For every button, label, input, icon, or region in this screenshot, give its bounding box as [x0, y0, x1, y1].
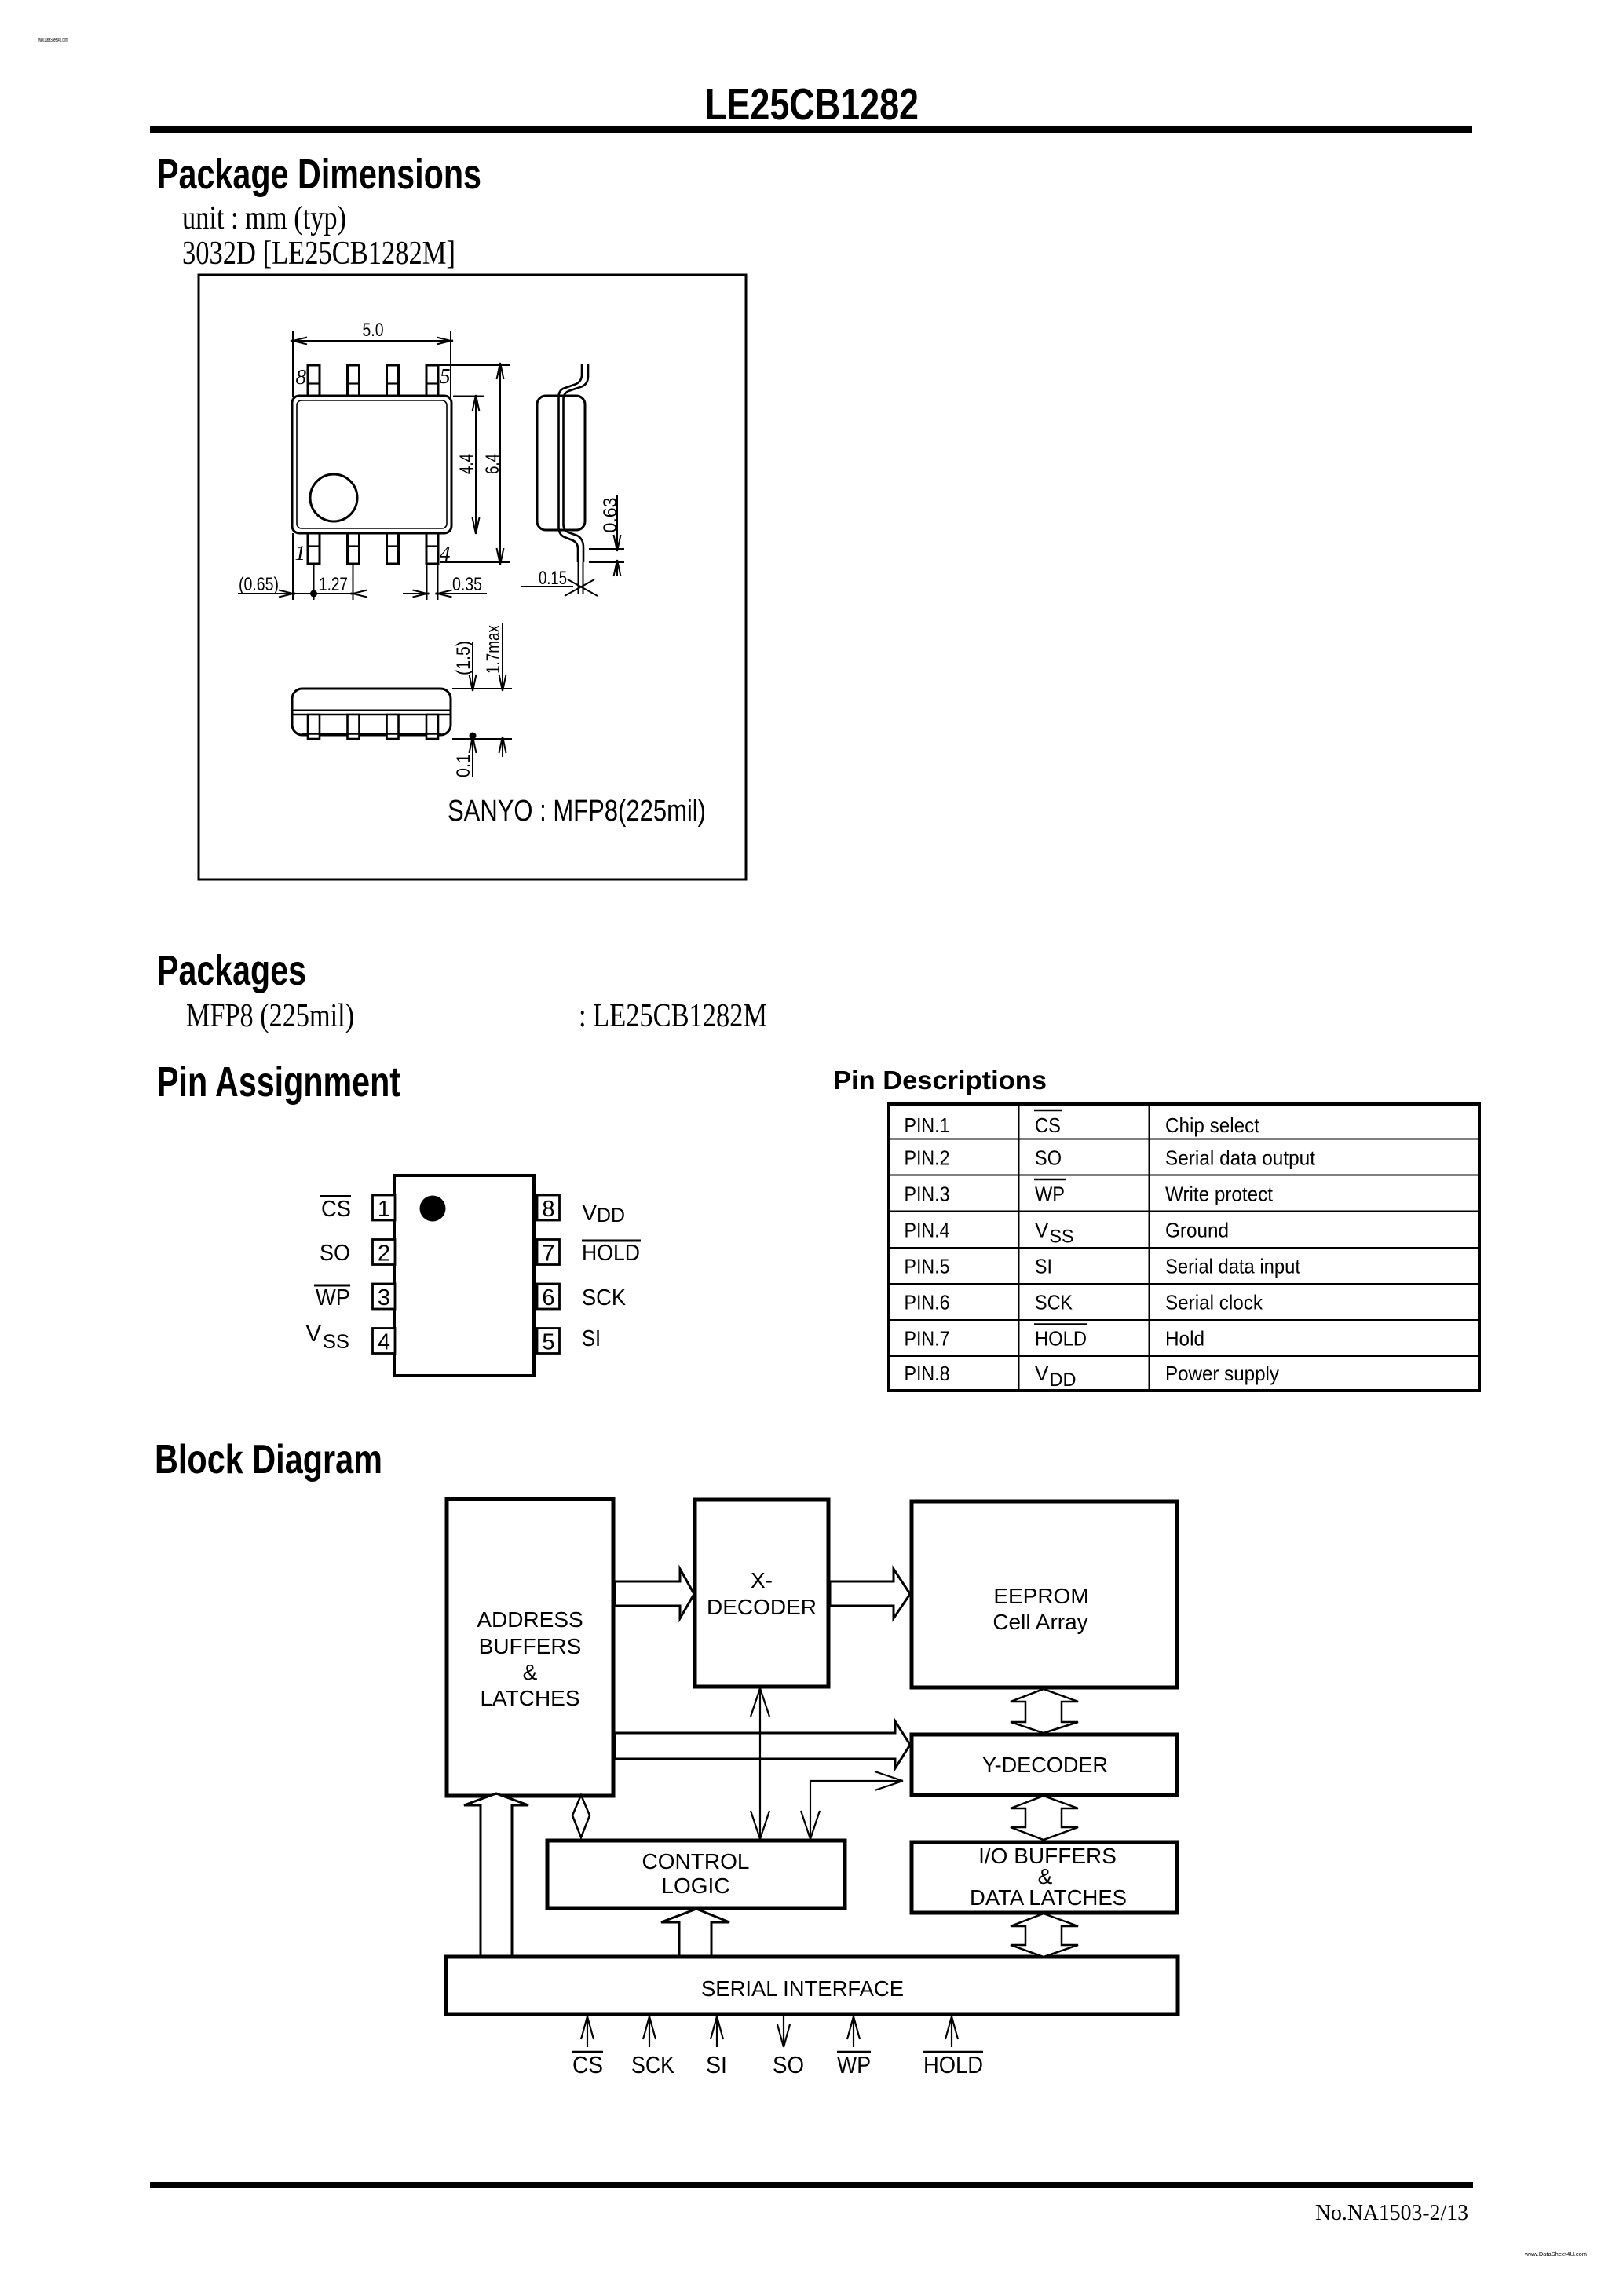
svg-text:0.63: 0.63	[600, 498, 621, 533]
svg-text:SS: SS	[323, 1331, 349, 1353]
svg-text:CS: CS	[572, 2051, 603, 2078]
svg-text:PIN.3: PIN.3	[905, 1183, 950, 1206]
svg-text:SANYO : MFP8(225mil): SANYO : MFP8(225mil)	[448, 795, 706, 828]
svg-text:Serial data input: Serial data input	[1165, 1255, 1301, 1278]
svg-text:1.27: 1.27	[319, 574, 348, 595]
lead left edge	[559, 364, 583, 562]
svg-text:Power supply: Power supply	[1165, 1362, 1279, 1385]
dot at pin1 center	[310, 590, 317, 598]
block: i/o buffers & data latches	[912, 1842, 1177, 1913]
svg-text:Write protect: Write protect	[1165, 1183, 1274, 1206]
svg-text:HOLD: HOLD	[1035, 1327, 1087, 1351]
svg-text:Cell Array: Cell Array	[992, 1610, 1087, 1634]
footer rule	[150, 2182, 1473, 2188]
dim 0.15 line	[521, 586, 573, 587]
svg-text:SO: SO	[773, 2051, 804, 2078]
svg-text:EEPROM: EEPROM	[993, 1584, 1088, 1608]
svg-text:V: V	[306, 1322, 322, 1347]
svg-text:Hold: Hold	[1165, 1327, 1204, 1351]
top pins 8..5	[308, 365, 438, 396]
svg-text:Serial data output: Serial data output	[1165, 1146, 1316, 1170]
dim 5.0 line with arrowheads	[293, 340, 451, 342]
svg-text:V: V	[582, 1201, 598, 1226]
parting lines	[293, 710, 450, 711]
svg-text:1: 1	[295, 541, 306, 565]
svg-text:PIN.2: PIN.2	[905, 1146, 950, 1170]
svg-text:PIN.8: PIN.8	[905, 1362, 950, 1385]
dim line 0.65 / 1.27	[238, 593, 353, 594]
svg-text:Pin Assignment: Pin Assignment	[157, 1058, 400, 1106]
svg-text:Y-DECODER: Y-DECODER	[982, 1753, 1108, 1777]
svg-text:&: &	[523, 1660, 538, 1684]
svg-text:SO: SO	[320, 1241, 350, 1266]
dim 0.35 arrows	[403, 593, 427, 594]
svg-text:0.15: 0.15	[539, 568, 567, 589]
svg-text:unit : mm (typ): unit : mm (typ)	[182, 200, 346, 236]
block: x-decoder	[695, 1500, 828, 1687]
svg-text:V: V	[1035, 1219, 1049, 1242]
lead right edge	[564, 364, 589, 562]
svg-text:LE25CB1282: LE25CB1282	[705, 79, 919, 130]
svg-text:4.4: 4.4	[456, 454, 477, 474]
svg-text:Packages: Packages	[157, 947, 306, 994]
svg-text:8: 8	[542, 1197, 554, 1222]
svg-text:SCK: SCK	[1035, 1291, 1073, 1314]
input arrow CS	[587, 2016, 588, 2047]
pin1 index circle	[310, 474, 357, 521]
svg-text:HOLD: HOLD	[923, 2051, 983, 2078]
thin arrow: control logic to y-decoder	[810, 1781, 903, 1839]
svg-text:0.1: 0.1	[453, 754, 474, 777]
package body top view	[292, 396, 451, 533]
hollow arrow: address buffers to x-decoder	[615, 1569, 694, 1618]
label WP with overline	[314, 1285, 350, 1287]
output arrow SO	[783, 2016, 784, 2047]
svg-text:8: 8	[296, 365, 307, 389]
pin numbers	[378, 1197, 555, 1355]
svg-text:HOLD: HOLD	[582, 1241, 640, 1266]
pin boxes right	[537, 1195, 560, 1220]
pin boxes left	[373, 1195, 560, 1354]
svg-text:CONTROL: CONTROL	[642, 1849, 750, 1874]
block: control logic	[547, 1841, 845, 1908]
svg-text:ADDRESS: ADDRESS	[477, 1607, 583, 1632]
svg-text:WP: WP	[316, 1285, 350, 1311]
svg-text:WP: WP	[1035, 1183, 1065, 1206]
svg-text:SCK: SCK	[631, 2051, 674, 2078]
svg-text:PIN.7: PIN.7	[905, 1327, 950, 1351]
dim 0.15 crossing arrows	[565, 579, 594, 596]
svg-text:Package Dimensions: Package Dimensions	[157, 151, 481, 198]
svg-text:(0.65): (0.65)	[239, 574, 279, 595]
dim 6.4	[437, 364, 510, 366]
body inner outline	[297, 400, 447, 528]
svg-text:SO: SO	[1035, 1146, 1062, 1170]
svg-text:6: 6	[542, 1285, 554, 1311]
block: y-decoder	[912, 1735, 1177, 1795]
dim 0.1	[472, 739, 473, 777]
svg-text:DECODER: DECODER	[707, 1595, 817, 1619]
svg-text:SI: SI	[582, 1326, 601, 1351]
svg-text:3032D [LE25CB1282M]: 3032D [LE25CB1282M]	[182, 236, 455, 272]
dim 1.7max	[502, 623, 503, 689]
svg-text:4: 4	[378, 1330, 390, 1355]
hollow arrow: serial interface to address buffers	[464, 1793, 528, 1956]
hollow arrow: address buffers to y-decoder	[615, 1721, 910, 1768]
svg-text:X-: X-	[751, 1568, 773, 1592]
svg-text:WP: WP	[837, 2051, 871, 2078]
side view body	[537, 396, 585, 530]
block: eeprom cell array	[912, 1501, 1177, 1687]
svg-text:BUFFERS: BUFFERS	[479, 1634, 582, 1658]
ext lines right of front view	[452, 688, 512, 689]
bottom dim extension lines	[292, 533, 294, 600]
dim (1.5)	[472, 642, 473, 689]
label CS with overline	[320, 1195, 351, 1197]
svg-text:Pin Descriptions: Pin Descriptions	[833, 1066, 1047, 1095]
input arrow HOLD	[951, 2016, 952, 2047]
title rule	[150, 126, 1472, 133]
svg-text:DD: DD	[597, 1205, 625, 1227]
front view pins	[308, 715, 438, 739]
pin1 marker dot	[420, 1196, 446, 1222]
signal overlines	[572, 2051, 983, 2053]
svg-text:Serial clock: Serial clock	[1165, 1291, 1263, 1314]
svg-text:SERIAL INTERFACE: SERIAL INTERFACE	[701, 1976, 904, 2001]
input arrow SI	[716, 2016, 718, 2047]
body bottom line over pins	[302, 733, 441, 735]
svg-text:PIN.1: PIN.1	[905, 1113, 950, 1137]
svg-text:CS: CS	[321, 1197, 351, 1222]
svg-text:: LE25CB1282M: : LE25CB1282M	[579, 998, 767, 1034]
svg-text:DATA LATCHES: DATA LATCHES	[970, 1885, 1127, 1910]
svg-text:Block Diagram: Block Diagram	[155, 1437, 382, 1483]
svg-text:LATCHES: LATCHES	[480, 1686, 579, 1710]
svg-text:7: 7	[542, 1241, 554, 1267]
svg-text:(1.5): (1.5)	[453, 641, 474, 675]
double arrow: y-decoder / i/o buffers	[1011, 1796, 1078, 1840]
hollow arrow: serial interface to control logic	[661, 1909, 729, 1956]
svg-text:PIN.6: PIN.6	[905, 1291, 950, 1314]
bottom pins 1..4	[308, 533, 438, 564]
front view body	[292, 689, 451, 735]
drawing frame	[199, 275, 746, 879]
svg-text:1: 1	[378, 1197, 390, 1222]
double arrow: eeprom / y-decoder	[1011, 1689, 1078, 1733]
svg-text:5.0: 5.0	[363, 320, 384, 341]
svg-text:No.NA1503-2/13: No.NA1503-2/13	[1315, 2200, 1468, 2225]
hollow arrow: x-decoder to eeprom	[830, 1569, 910, 1618]
svg-text:SCK: SCK	[582, 1285, 627, 1311]
dim 0.63 lines	[589, 548, 624, 550]
svg-text:2: 2	[378, 1241, 390, 1267]
thin arrow: x-decoder / control logic	[759, 1688, 761, 1839]
svg-text:1.7max: 1.7max	[483, 625, 504, 674]
input arrow SCK	[649, 2016, 650, 2047]
svg-text:www.DataSheet4U.com: www.DataSheet4U.com	[37, 38, 68, 43]
label HOLD with overline	[582, 1240, 641, 1242]
block: address buffers & latches	[447, 1499, 613, 1796]
svg-text:5: 5	[542, 1330, 554, 1355]
svg-text:SS: SS	[1050, 1227, 1074, 1248]
input arrow WP	[853, 2016, 854, 2047]
signal labels under serial interface	[572, 2051, 983, 2078]
block: serial interface	[446, 1957, 1178, 2014]
svg-text:SI: SI	[706, 2051, 727, 2078]
svg-text:Ground: Ground	[1165, 1219, 1229, 1242]
svg-text:PIN.4: PIN.4	[905, 1219, 950, 1242]
IC body	[394, 1175, 534, 1376]
table overlines	[1034, 1110, 1062, 1111]
lead tip extension lines	[578, 562, 579, 594]
svg-text:LOGIC: LOGIC	[661, 1874, 729, 1898]
svg-text:www.DataSheet4U.com: www.DataSheet4U.com	[1524, 2252, 1587, 2258]
svg-text:3: 3	[378, 1285, 390, 1311]
dot on 0.1 extent	[470, 733, 477, 740]
dim 5.0 extension lines	[292, 331, 294, 397]
svg-text:5: 5	[440, 364, 451, 388]
diamond arrow: address buffers / control logic	[572, 1795, 590, 1837]
double arrow: i/o buffers / serial interface	[1011, 1914, 1078, 1957]
svg-text:CS: CS	[1035, 1113, 1061, 1137]
svg-text:0.35: 0.35	[452, 574, 482, 595]
svg-text:SI: SI	[1035, 1255, 1052, 1278]
dim 4.4	[453, 396, 484, 397]
svg-text:PIN.5: PIN.5	[905, 1255, 950, 1278]
svg-text:V: V	[1035, 1362, 1049, 1385]
svg-text:6.4: 6.4	[482, 454, 503, 474]
svg-text:Chip select: Chip select	[1165, 1113, 1260, 1137]
svg-text:DD: DD	[1050, 1369, 1077, 1391]
svg-text:MFP8 (225mil): MFP8 (225mil)	[186, 998, 354, 1034]
